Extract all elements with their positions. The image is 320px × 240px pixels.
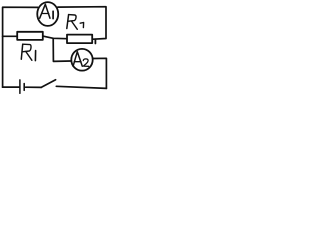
battery long plate: [19, 80, 21, 93]
resistor R2: [67, 35, 92, 44]
label R2 subscript: [80, 23, 83, 28]
label R2 letter R: [67, 15, 69, 29]
wire bottom left from border to battery: [3, 86, 19, 88]
wire from battery to switch pivot: [26, 86, 42, 88]
wire junction vertical down to A2 branch: [53, 38, 70, 61]
wire left border and top wire to A1: [3, 7, 38, 87]
label R1 subscript 1: [34, 51, 36, 61]
wire stub from left border to R1: [3, 35, 18, 37]
resistor R1: [17, 32, 43, 40]
wire top right from A1 to corner, down to R2 right end: [58, 7, 106, 40]
label R1 letter R: [21, 44, 22, 59]
battery short plate: [23, 84, 25, 91]
wire from R1 to junction to R2: [43, 36, 67, 39]
label A1 subscript 1: [52, 11, 54, 18]
label A1 letter A: [40, 4, 50, 18]
switch blade: [41, 80, 55, 88]
wire stub below R2 right wire: [94, 39, 96, 43]
wire bottom right from corner to switch contact: [56, 86, 106, 88]
wire from A2 right to bottom-right corner: [93, 58, 106, 88]
ammeter A1: [37, 2, 58, 26]
ammeter A2: [71, 49, 92, 71]
label A2 letter A: [73, 52, 82, 66]
label A2 subscript 2: [83, 59, 88, 66]
